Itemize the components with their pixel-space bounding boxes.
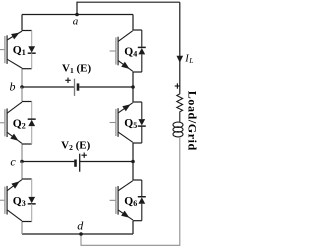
wire: V1 battery to right column [79,86,133,88]
transistor Q1 (IGBT) [0,31,22,68]
wire: bus a to Q4 collector [132,15,134,31]
label + (load top) [175,83,180,88]
transistor Q2 (IGBT) [0,102,22,143]
wire: right vertical down to load [179,2,181,92]
transistor Q6 rails [133,179,142,181]
node a junction dot [75,13,79,17]
transistor Q4 (IGBT) [110,31,133,72]
transistor Q5 rails [133,101,142,103]
transistor Q5 (IGBT) [110,103,133,143]
wire: Q5 emitter to node c rail [132,143,134,162]
svg-text:d: d [77,218,84,232]
label + (V1) [65,78,70,83]
transistor Q2 rails [22,101,32,103]
battery V1 positive plate [74,79,76,96]
wire: top bus (node a rail) [22,14,133,16]
wire: Q6 emitter to bus d [132,221,134,234]
diode D3 (anti-parallel with Q3) [28,179,36,222]
wire: Q3 emitter to bus d [21,222,23,235]
wire: node b to Q2 collector [21,87,23,102]
wire: load bottom return [81,137,180,245]
node c junction dot (left) [20,160,24,164]
transistor Q6 (IGBT) [110,181,133,221]
wire: Q4 emitter to node b rail [132,72,134,87]
svg-text:V2 (E): V2 (E) [61,140,90,153]
node d junction dot [79,232,83,236]
wire: node a up and across to load [77,2,180,14]
inductor (load L) [173,122,183,137]
battery V2 negative plate [74,160,77,167]
node b junction dot (right) [131,85,135,89]
diode D4 (anti-parallel with Q4) [138,30,146,72]
transistor Q3 (IGBT) [0,180,22,221]
current arrow IL [177,56,184,63]
diode D5 (anti-parallel with Q5) [138,102,146,143]
svg-text:b: b [10,80,16,94]
resistor (load R) [177,93,183,123]
svg-text:Load/Grid: Load/Grid [185,91,199,151]
svg-text:a: a [73,16,79,28]
wire: Q1 emitter to node b [21,69,23,87]
diode D1 (anti-parallel with Q1) [28,31,36,69]
label + (V2) [82,153,87,158]
diode D6 (anti-parallel with Q6) [138,180,146,221]
wire: bottom bus (node d rail) [22,233,133,235]
wire: node c rail to Q6 collector [132,162,134,181]
transistor Q1 rails [22,30,32,32]
battery V2 positive plate [79,154,81,172]
node b junction dot (left) [20,85,24,89]
wire: V2 battery to right column [80,161,133,163]
wire: node c to Q3 collector [21,162,23,180]
transistor Q4 rails [133,29,142,31]
svg-text:c: c [10,154,16,168]
svg-text:L: L [188,56,193,65]
wire: bus a to Q1 collector [21,15,23,31]
svg-text:V1 (E): V1 (E) [62,62,91,75]
wire: node b to V1 battery [22,86,75,88]
diode D2 (anti-parallel with Q2) [28,102,36,145]
wire: node c to V2 battery [21,161,23,163]
wire: Q2 emitter to node c [21,144,23,162]
node c junction dot (right) [131,160,135,164]
wire: node b rail to Q5 collector [132,87,134,102]
transistor Q3 rails [22,178,32,180]
battery V1 negative plate [77,83,80,90]
